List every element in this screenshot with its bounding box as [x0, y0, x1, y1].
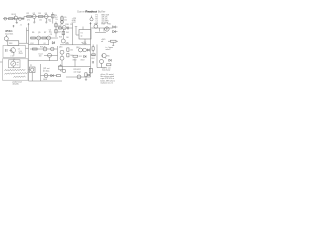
resistor R14	[111, 40, 117, 42]
label R7	[44, 32, 46, 34]
svg-text:R13: R13	[102, 24, 105, 26]
wire	[95, 32, 106, 34]
transistor Q16	[60, 50, 64, 54]
transistor Q17	[60, 56, 64, 60]
label Q10	[19, 51, 22, 53]
note squiggle 2	[5, 72, 28, 74]
svg-text:R26: R26	[59, 36, 62, 38]
diode D8	[88, 74, 90, 76]
svg-text:3k3: 3k3	[66, 32, 69, 34]
svg-text:R6: R6	[32, 32, 34, 34]
svg-text:R7: R7	[44, 32, 46, 34]
label out stage top	[74, 69, 81, 71]
transistor Q10	[9, 47, 15, 56]
svg-text:5%: 5%	[55, 19, 58, 21]
svg-text:R10: R10	[66, 24, 69, 26]
resistor R1	[9, 18, 13, 20]
svg-text:IN J1: IN J1	[12, 14, 16, 16]
wire	[41, 75, 57, 77]
svg-text:drv bias: drv bias	[43, 70, 49, 72]
label note level	[5, 33, 13, 36]
wire	[29, 80, 63, 82]
wire	[30, 48, 58, 50]
wire	[58, 27, 73, 29]
label parts list col 1	[96, 14, 98, 24]
svg-text:C3: C3	[50, 34, 52, 36]
note squiggle 3	[14, 76, 26, 78]
label R19	[40, 46, 46, 48]
label R5 value	[64, 19, 67, 21]
resistor R19	[33, 48, 38, 50]
label Q7	[60, 24, 62, 26]
block M1	[9, 60, 21, 68]
connector P1	[90, 16, 93, 21]
diode D2	[113, 26, 116, 29]
label R3	[38, 13, 40, 15]
label reg2	[101, 41, 104, 43]
label pin up	[20, 24, 23, 26]
svg-text:Q7: Q7	[60, 24, 62, 26]
block K1	[79, 30, 91, 40]
resistor R22	[73, 55, 78, 57]
svg-text:100: 100	[70, 49, 73, 51]
label R12	[94, 24, 97, 26]
label Q15 base	[39, 53, 43, 55]
label node A	[49, 21, 51, 23]
connector box P2	[30, 67, 36, 73]
svg-text:R2: R2	[27, 13, 29, 15]
diode D3	[113, 30, 116, 33]
svg-text:out stage: out stage	[74, 70, 81, 73]
wire	[28, 24, 30, 82]
svg-text:Q16: Q16	[59, 47, 62, 49]
label net VDD	[72, 18, 77, 20]
svg-text:2N5: 2N5	[107, 55, 110, 57]
wire	[24, 17, 51, 20]
svg-text:detail A: detail A	[13, 83, 20, 86]
svg-text:sense: sense	[82, 43, 87, 45]
wire	[83, 27, 85, 45]
transistor Q8	[61, 39, 65, 43]
svg-text:REF: REF	[9, 43, 13, 45]
resistor R11	[62, 31, 64, 35]
capacitor C4	[6, 49, 7, 52]
label R2	[27, 13, 29, 15]
svg-text:P2: P2	[30, 65, 32, 67]
svg-text:marked. rev 2.1: marked. rev 2.1	[101, 83, 113, 85]
wire	[30, 37, 58, 39]
label Q15 val	[39, 56, 42, 58]
transistor Q3	[44, 15, 48, 19]
label M1 pins	[17, 61, 20, 64]
svg-text:+V: +V	[20, 24, 23, 26]
svg-text:R22: R22	[79, 56, 82, 58]
label R5	[64, 17, 66, 19]
diode D5	[87, 49, 89, 52]
transistor Q23	[61, 21, 64, 24]
label R11 side	[66, 32, 69, 34]
enclosure box 2	[3, 59, 29, 80]
wire	[85, 77, 87, 79]
label R10	[66, 24, 69, 26]
wire	[61, 64, 63, 71]
wire	[100, 28, 105, 32]
label caption 2	[13, 83, 20, 86]
resistor R16	[59, 66, 62, 70]
wire	[29, 70, 33, 81]
resistor R5	[61, 17, 63, 21]
svg-text:1k5: 1k5	[66, 37, 69, 39]
label bias list	[49, 29, 52, 36]
svg-text:rly: rly	[81, 34, 83, 37]
node supply arrow	[28, 23, 30, 25]
label Q10 pins	[11, 55, 15, 57]
svg-text:R19 1k: R19 1k	[40, 46, 46, 48]
svg-text:0R22: 0R22	[73, 60, 77, 62]
svg-text:select: select	[106, 48, 111, 51]
wire	[0, 61, 3, 63]
label M1 scale	[17, 65, 19, 67]
svg-text:R3: R3	[38, 13, 40, 15]
transistor Q1	[14, 15, 18, 22]
resistor R23	[107, 64, 111, 66]
wire	[58, 66, 91, 68]
enclosure box 1	[3, 46, 26, 58]
ground	[33, 21, 35, 24]
label J1	[12, 14, 16, 16]
label K1	[81, 32, 83, 34]
wire	[108, 40, 118, 42]
resistor R7	[42, 37, 46, 39]
label Q18	[76, 47, 79, 49]
svg-text:560R: 560R	[43, 79, 48, 81]
svg-text:2k2: 2k2	[64, 19, 67, 21]
svg-text:e b c: e b c	[11, 55, 15, 57]
label note WVD	[5, 31, 13, 33]
svg-text:1k: 1k	[49, 21, 51, 23]
label Q8	[66, 43, 68, 45]
label notes right	[101, 66, 115, 84]
wire	[112, 42, 114, 45]
label R22	[79, 56, 82, 58]
label R3 value	[39, 20, 42, 22]
label Q2	[33, 13, 35, 15]
wire	[44, 55, 58, 60]
label rail 1	[30, 43, 34, 45]
label R21 value	[70, 55, 73, 57]
wire	[40, 64, 42, 81]
label R13	[102, 24, 105, 26]
svg-text:4k7: 4k7	[58, 31, 61, 33]
label K1 type	[81, 34, 83, 37]
wire	[97, 67, 106, 69]
transistor Q22	[51, 47, 55, 51]
transistor Q1b	[18, 17, 21, 20]
wire	[91, 54, 96, 56]
label mid rail	[65, 43, 70, 45]
wire	[90, 22, 92, 77]
node plus mark	[90, 23, 92, 25]
label tc note	[106, 46, 114, 49]
resistor R18	[89, 68, 92, 73]
label R2 value	[27, 20, 30, 22]
svg-text:uA: uA	[17, 61, 20, 64]
wire	[62, 30, 64, 39]
svg-text:1k8: 1k8	[39, 56, 42, 58]
wire	[57, 46, 59, 61]
resistor R26	[59, 27, 62, 29]
wire	[27, 28, 29, 44]
wire	[39, 40, 49, 45]
label R26b	[59, 36, 62, 38]
label reg	[101, 39, 105, 41]
connector J1	[4, 17, 7, 20]
svg-text:47k: 47k	[27, 20, 30, 22]
label R24	[91, 58, 94, 60]
label net GND	[72, 20, 77, 22]
resistor R27	[92, 45, 94, 53]
diode D1	[52, 41, 54, 44]
diode D4	[51, 74, 53, 77]
label emitters	[73, 60, 77, 62]
resistor R8	[55, 24, 57, 27]
resistor R6	[31, 37, 36, 39]
current source I1	[105, 27, 109, 31]
svg-text:10k: 10k	[39, 20, 42, 22]
transistor Q9	[94, 25, 98, 29]
svg-text:R15: R15	[108, 24, 111, 26]
wire	[29, 44, 50, 46]
diode D7	[109, 59, 111, 62]
node supply tick	[13, 25, 15, 27]
wire	[13, 58, 15, 60]
label tc note2	[106, 48, 111, 51]
label parts list col 2	[102, 14, 110, 24]
label R6	[32, 32, 34, 34]
resistor R21	[67, 54, 69, 57]
resistor R2	[27, 16, 32, 18]
resistor R9	[55, 30, 57, 33]
label Q16	[59, 47, 62, 49]
wire	[61, 16, 63, 24]
label mid rail2	[82, 43, 87, 45]
capacitor C5	[67, 27, 68, 30]
transistor Q24	[83, 48, 87, 52]
wire	[75, 27, 79, 35]
label drive top	[43, 67, 50, 70]
svg-text:match pair: match pair	[102, 69, 111, 72]
wire	[52, 12, 54, 23]
svg-text:100: 100	[70, 55, 73, 57]
wire	[60, 44, 91, 46]
svg-text:ref: ref	[101, 41, 104, 43]
label bias value	[43, 79, 48, 81]
svg-text:C5: C5	[70, 24, 72, 26]
label R11 value	[66, 37, 69, 39]
transistor Q5	[37, 36, 41, 40]
resistor R24	[92, 54, 95, 56]
transistor Q4	[4, 35, 8, 42]
label R4 value	[55, 17, 58, 19]
label R20 value	[70, 49, 73, 51]
transistor Q20	[100, 60, 104, 68]
transistor Q19	[102, 53, 106, 58]
svg-text:R24: R24	[91, 58, 94, 60]
wire	[19, 42, 29, 44]
wire	[12, 60, 14, 68]
label out stage	[74, 70, 81, 73]
wire	[3, 18, 24, 20]
transistor Q6	[47, 36, 51, 40]
ground	[16, 22, 18, 25]
capacitor C1	[23, 18, 24, 20]
label Q10 note	[18, 48, 21, 50]
label R4	[55, 15, 57, 17]
resistor R20	[67, 48, 69, 51]
transistor Q11	[44, 74, 48, 78]
note squiggle 1	[5, 69, 26, 71]
wire	[72, 23, 74, 45]
label stack note	[55, 19, 58, 21]
ground	[45, 21, 47, 24]
diode D6	[84, 55, 86, 58]
wire	[26, 47, 29, 49]
label U1	[9, 43, 13, 45]
wire	[91, 27, 113, 29]
transistor Q14	[43, 47, 47, 51]
resistor R4	[52, 14, 54, 18]
label Q3 type	[48, 20, 51, 22]
svg-text:0R22: 0R22	[81, 60, 85, 62]
transistor Q7	[62, 26, 66, 30]
svg-text:2N39: 2N39	[19, 53, 23, 55]
wire	[96, 45, 98, 68]
transistor Q2	[32, 15, 36, 19]
transistor Q12	[62, 69, 66, 73]
transistor Q15	[48, 53, 52, 57]
svg-text:Q5: Q5	[38, 32, 40, 34]
label emitters2	[81, 60, 85, 62]
meter M1	[11, 61, 16, 66]
resistor R17	[85, 73, 87, 77]
svg-text:50: 50	[17, 65, 19, 67]
label caption 1	[13, 81, 22, 83]
label Q5	[38, 32, 40, 34]
resistor R15	[57, 75, 61, 77]
wire	[66, 76, 91, 78]
label q20	[107, 55, 110, 57]
label P2	[30, 65, 32, 67]
wire	[61, 54, 63, 66]
wire	[29, 60, 58, 62]
transistor Q13	[77, 75, 81, 79]
wire	[34, 18, 46, 22]
label K1 coil	[81, 42, 87, 44]
svg-text:Some Readout Buffer: Some Readout Buffer	[77, 10, 105, 14]
label drive	[43, 70, 49, 72]
transistor Q18	[79, 48, 83, 52]
label R9 value	[58, 31, 61, 33]
label C5	[70, 24, 72, 26]
wire	[55, 22, 57, 38]
capacitor C6	[92, 61, 93, 63]
resistor R3	[38, 16, 43, 18]
title	[77, 10, 105, 14]
svg-text:K1: K1	[81, 32, 83, 34]
label rail 2	[44, 43, 47, 45]
wire	[115, 27, 117, 32]
label R15	[108, 24, 111, 26]
block U1	[8, 41, 19, 46]
label Q10 type	[19, 53, 23, 55]
label R8 value	[58, 25, 61, 27]
ground	[85, 79, 87, 82]
label Q3	[45, 13, 47, 15]
wire	[74, 59, 76, 67]
label net OUT	[72, 22, 77, 24]
